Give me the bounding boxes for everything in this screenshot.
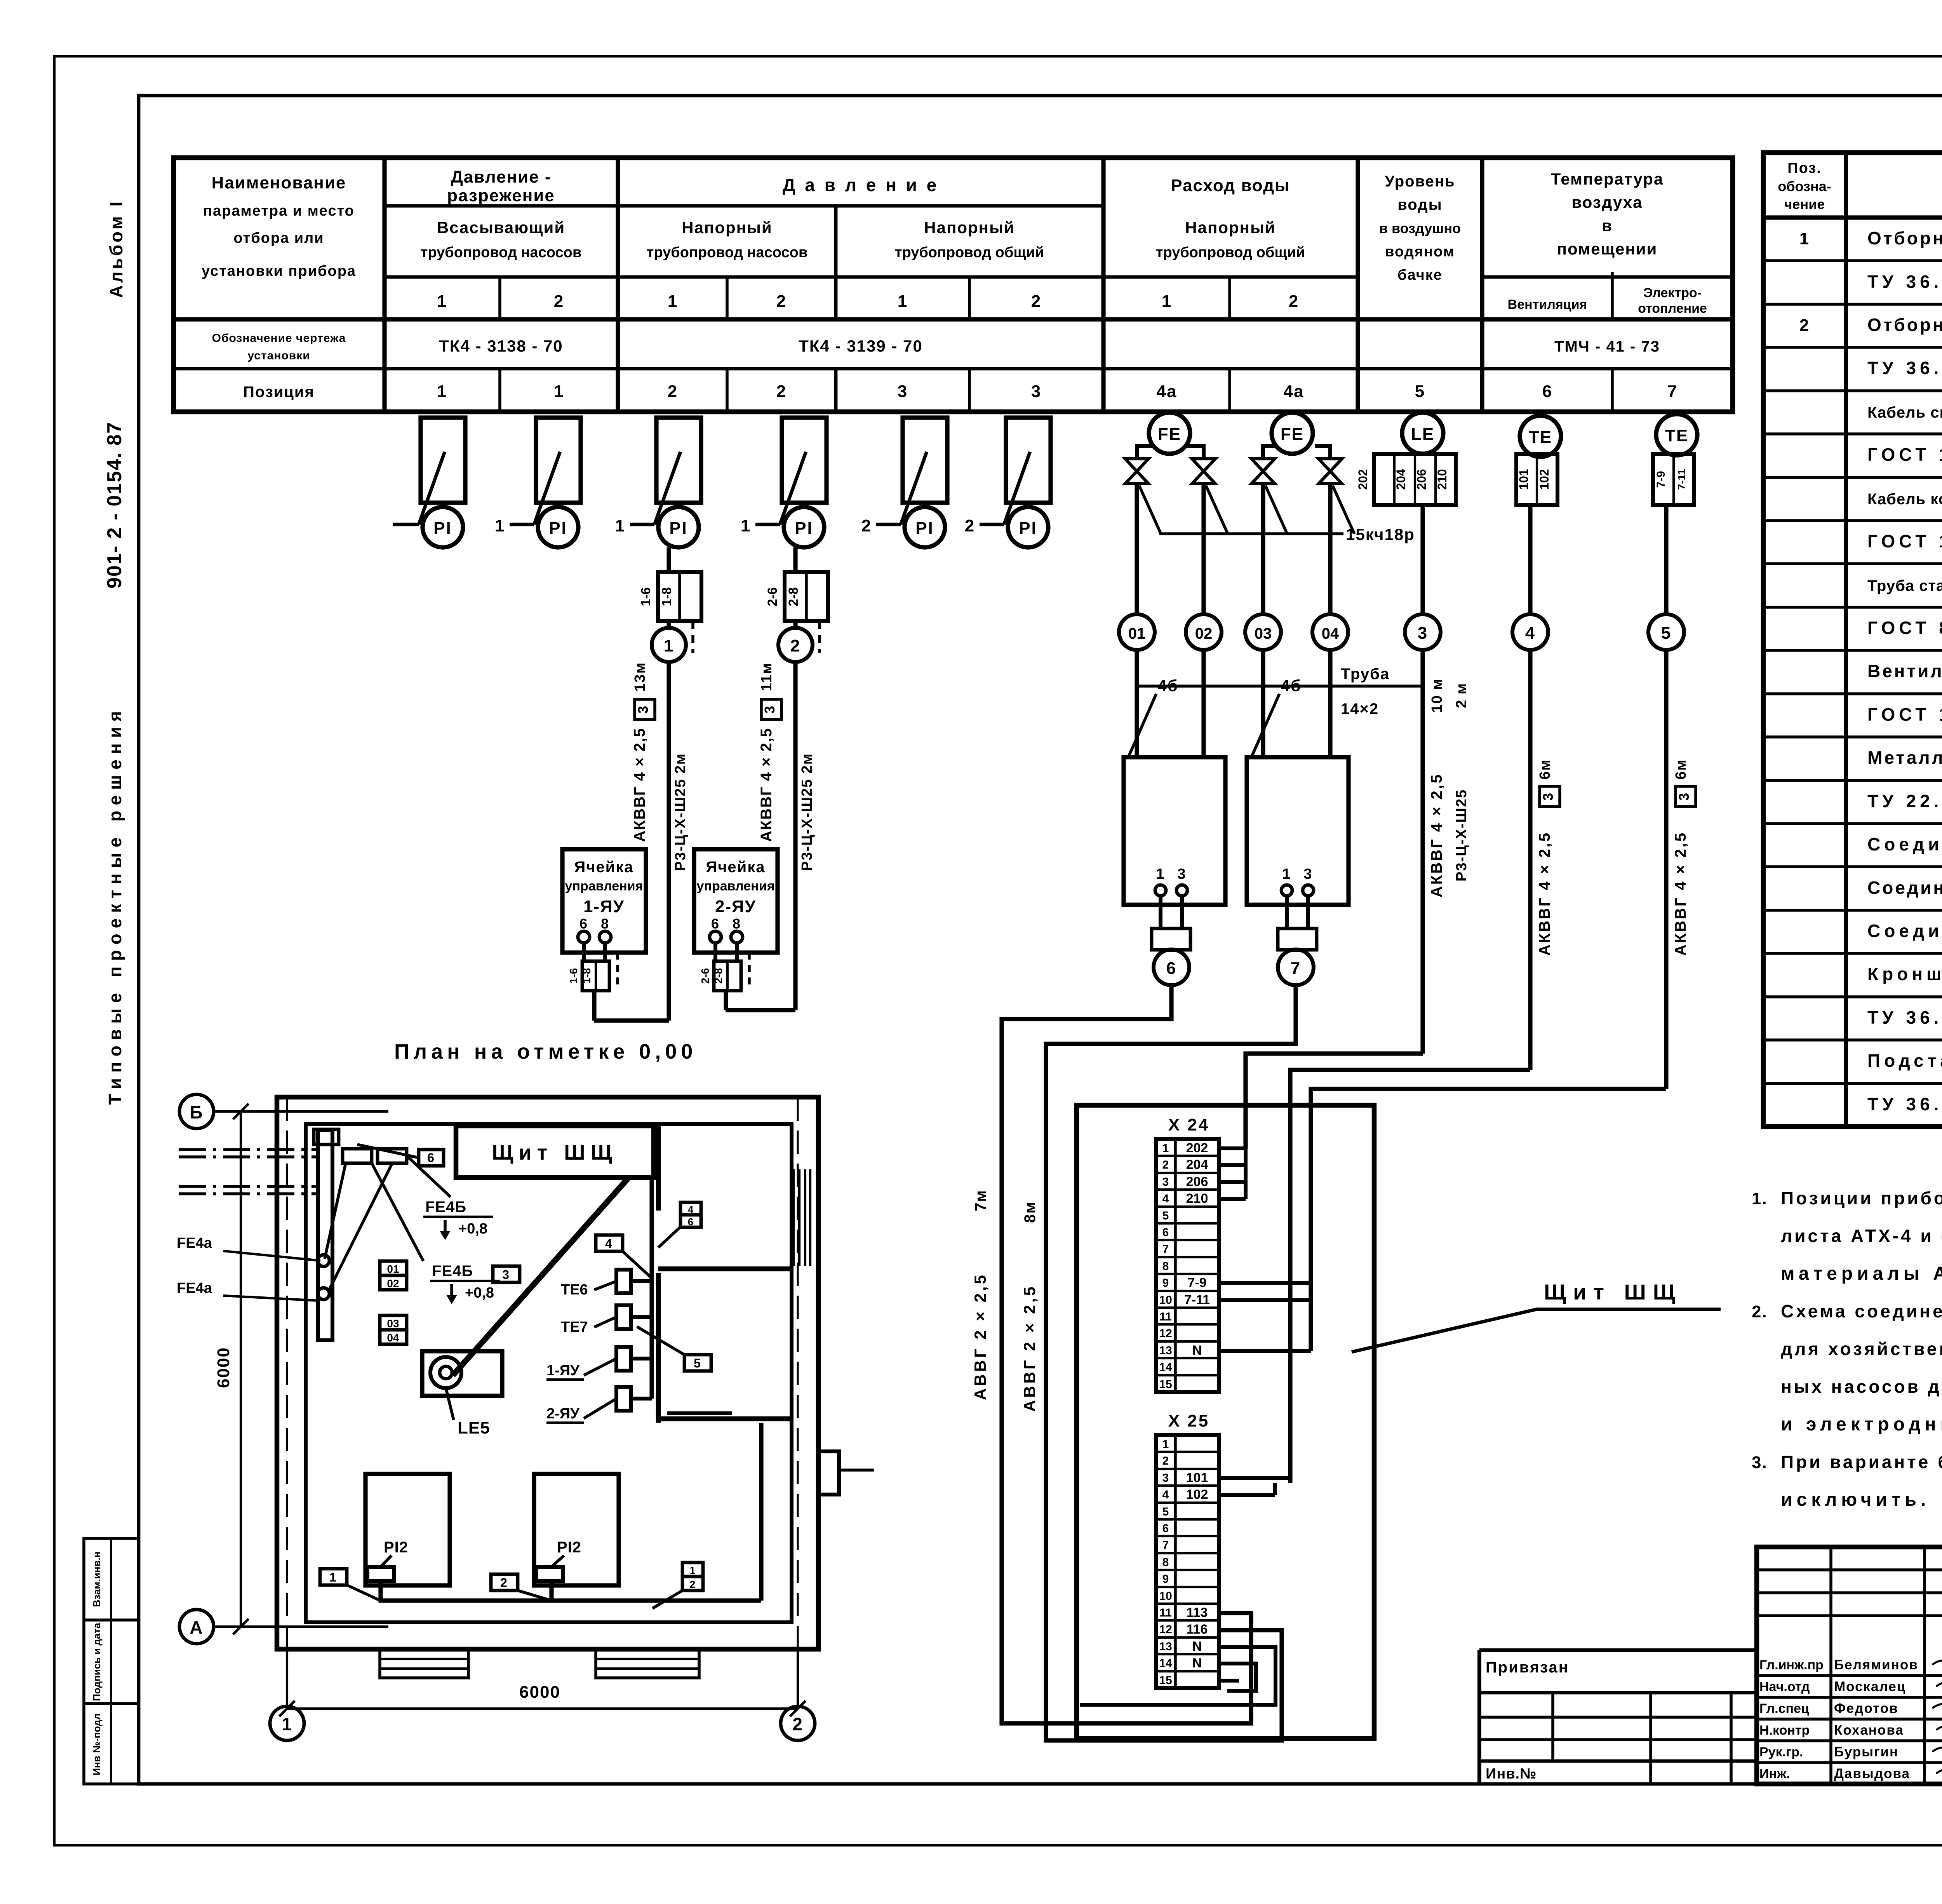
svg-text:6м: 6м xyxy=(1673,759,1689,779)
svg-text:6м: 6м xyxy=(1537,759,1553,779)
svg-text:АВВГ 2 × 2,5: АВВГ 2 × 2,5 xyxy=(971,1273,989,1400)
control cell 1-YaU box xyxy=(562,849,646,953)
valve 15kch18r #4 xyxy=(1319,459,1342,484)
svg-text:1-6: 1-6 xyxy=(567,968,579,984)
svg-text:12: 12 xyxy=(1159,1327,1172,1340)
svg-text:12: 12 xyxy=(1159,1623,1172,1636)
svg-text:04: 04 xyxy=(387,1332,399,1344)
svg-text:N: N xyxy=(1192,1343,1202,1358)
svg-text:3: 3 xyxy=(762,705,778,714)
svg-text:Уровень: Уровень xyxy=(1385,173,1455,190)
junction circles 01 02 03 04 xyxy=(1119,614,1155,650)
takeoff device rectangle 4 xyxy=(782,418,827,503)
svg-text:1: 1 xyxy=(437,292,447,311)
svg-text:3: 3 xyxy=(1418,624,1428,643)
staff rows xyxy=(1757,1674,1942,1677)
svg-text:113: 113 xyxy=(1187,1605,1208,1620)
svg-text:10 м: 10 м xyxy=(1429,678,1445,713)
svg-text:ТУ 36. 1228 - 72: ТУ 36. 1228 - 72 xyxy=(1867,1007,1942,1028)
svg-text:1-8: 1-8 xyxy=(660,587,674,606)
svg-text:11м: 11м xyxy=(759,662,775,691)
svg-text:FE4а: FE4а xyxy=(177,1235,212,1251)
svg-text:Вентиляция: Вентиляция xyxy=(1508,297,1587,312)
svg-text:Щит ШЩ: Щит ШЩ xyxy=(492,1141,618,1164)
svg-text:8м: 8м xyxy=(1021,1201,1039,1223)
svg-text:помещении: помещении xyxy=(1557,240,1658,258)
X25 stubs rows3-4 to TE6 bus xyxy=(1220,1476,1290,1480)
svg-text:7: 7 xyxy=(1667,382,1677,401)
svg-text:Бурыгин: Бурыгин xyxy=(1834,1744,1898,1759)
svg-text:2: 2 xyxy=(776,382,787,401)
privyazan table xyxy=(1479,1648,1757,1652)
svg-text:10: 10 xyxy=(1159,1590,1172,1603)
svg-text:ТУ 36.1258 - 76: ТУ 36.1258 - 76 xyxy=(1867,358,1942,378)
svg-text:Расход воды: Расход воды xyxy=(1171,176,1290,195)
bottom dimension line xyxy=(287,1707,798,1710)
svg-text:2-6: 2-6 xyxy=(699,968,711,984)
svg-text:План на отметке 0,00: План на отметке 0,00 xyxy=(394,1040,697,1063)
bottom-left stamp boxes xyxy=(84,1538,139,1784)
svg-text:TE: TE xyxy=(1529,428,1552,447)
svg-text:1: 1 xyxy=(437,382,447,401)
svg-text:Р3-Ц-Х-Ш25: Р3-Ц-Х-Ш25 xyxy=(1453,789,1470,881)
junction circle 7 xyxy=(1294,949,1298,950)
svg-text:101: 101 xyxy=(1186,1470,1208,1485)
svg-text:1: 1 xyxy=(1156,866,1165,882)
parameter table xyxy=(174,158,1733,412)
svg-text:1: 1 xyxy=(664,636,674,655)
control cell 2-YaU box xyxy=(694,849,778,953)
terminal box under PI with labels 2-6 2-8 xyxy=(785,572,828,621)
protective tube 14x2 marker line xyxy=(1137,685,1423,688)
svg-text:Позиция: Позиция xyxy=(243,383,315,401)
svg-text:Электро-: Электро- xyxy=(1643,286,1702,300)
cable junction circle 1 xyxy=(652,628,686,662)
svg-text:Давыдова: Давыдова xyxy=(1834,1766,1910,1781)
LE conductor marker box 202/204/206/210 xyxy=(1374,454,1456,505)
svg-text:управления: управления xyxy=(697,879,775,894)
svg-text:1-8: 1-8 xyxy=(581,968,593,984)
svg-text:8: 8 xyxy=(733,916,741,932)
svg-text:2: 2 xyxy=(690,1578,695,1590)
svg-text:Напорный: Напорный xyxy=(1185,218,1276,237)
spare dashed conductor xyxy=(748,953,751,987)
plate 5 xyxy=(684,1355,711,1371)
svg-text:Схема соединений внешних пр: Схема соединений внешних проводок состав… xyxy=(1781,1301,1942,1321)
TE/YaU boxes column xyxy=(616,1270,631,1293)
wire elbow to control cell xyxy=(726,1008,795,1012)
building inner wall xyxy=(306,1124,792,1622)
svg-text:TE: TE xyxy=(1665,426,1688,445)
svg-text:Москалец: Москалец xyxy=(1834,1679,1906,1694)
svg-text:206: 206 xyxy=(1415,469,1429,490)
svg-text:3: 3 xyxy=(1031,382,1041,401)
valve leader tick xyxy=(1206,486,1228,534)
panel ShchSh on plan xyxy=(456,1126,654,1178)
svg-text:4: 4 xyxy=(1525,624,1535,643)
svg-text:Вентиль 15 кч 18р Ду 15: Вентиль 15 кч 18р Ду 15 xyxy=(1867,661,1942,681)
svg-text:Кронштейн ДП: Кронштейн ДП xyxy=(1867,964,1942,984)
plate 1 xyxy=(320,1569,347,1585)
svg-text:ТЕ6: ТЕ6 xyxy=(561,1282,588,1298)
svg-text:PI: PI xyxy=(433,519,452,538)
svg-text:1: 1 xyxy=(495,516,505,535)
svg-text:2-8: 2-8 xyxy=(712,968,724,984)
svg-text:202: 202 xyxy=(1356,469,1370,490)
leader line PI6 xyxy=(1004,452,1030,524)
right wall door block xyxy=(818,1451,839,1495)
svg-text:ТУ 36.1258 - 76: ТУ 36.1258 - 76 xyxy=(1867,272,1942,292)
LE wire down xyxy=(1420,505,1425,614)
svg-text:13м: 13м xyxy=(632,662,648,692)
svg-text:11: 11 xyxy=(1159,1606,1172,1619)
plate 03/04 xyxy=(380,1315,407,1330)
svg-text:Типовые проектные решения: Типовые проектные решения xyxy=(105,706,125,1105)
leader line PI3 xyxy=(654,452,680,524)
svg-text:8: 8 xyxy=(601,916,609,932)
svg-text:01: 01 xyxy=(1128,625,1146,642)
svg-text:ГОСТ 18161 - 72: ГОСТ 18161 - 72 xyxy=(1867,704,1942,725)
svg-text:1-ЯУ: 1-ЯУ xyxy=(583,897,625,916)
LE5 tank with float xyxy=(422,1351,502,1396)
diff manometer rectangle 4b xyxy=(1247,757,1349,905)
svg-text:7: 7 xyxy=(1162,1243,1169,1256)
svg-text:PI: PI xyxy=(915,519,934,538)
FE4a orifice circles xyxy=(318,1255,329,1266)
junction circle 4 xyxy=(1512,614,1548,650)
grid line 1 xyxy=(286,1649,288,1706)
grid circle 2 xyxy=(781,1706,815,1740)
panel ShchSh box xyxy=(1077,1105,1374,1739)
TE7 wire elbow into panel xyxy=(1311,1089,1666,1351)
wires valves to junction circles 01-04 xyxy=(1135,484,1139,614)
svg-text:отопление: отопление xyxy=(1638,301,1707,316)
svg-text:Соединитель СШП-14: Соединитель СШП-14 xyxy=(1867,834,1942,854)
svg-text:5: 5 xyxy=(1162,1209,1169,1222)
svg-text:в воздушно: в воздушно xyxy=(1379,220,1461,236)
title block main box xyxy=(1757,1547,1942,1784)
svg-text:FE: FE xyxy=(1158,425,1181,444)
svg-text:трубопровод насосов: трубопровод насосов xyxy=(421,244,581,261)
connector box SShP-14 xyxy=(1152,928,1190,950)
svg-text:204: 204 xyxy=(1394,469,1408,490)
svg-text:6: 6 xyxy=(1162,1522,1169,1535)
svg-text:5: 5 xyxy=(1415,382,1425,401)
svg-text:5: 5 xyxy=(694,1356,701,1370)
svg-text:Взам.инв.н: Взам.инв.н xyxy=(91,1552,103,1607)
grid circle B xyxy=(179,1094,214,1129)
leader fan lines xyxy=(325,1163,346,1259)
TE6 wire elbow into panel xyxy=(1290,1070,1530,1483)
svg-text:Д а в л е н и е: Д а в л е н и е xyxy=(783,175,939,195)
leader line PI5 xyxy=(901,452,927,524)
svg-text:ТУ 22. 3988 - 77: ТУ 22. 3988 - 77 xyxy=(1867,791,1942,811)
svg-text:3: 3 xyxy=(1162,1472,1169,1484)
svg-text:FE4а: FE4а xyxy=(177,1280,212,1296)
svg-text:Альбом I: Альбом I xyxy=(106,199,126,298)
svg-text:2: 2 xyxy=(1289,292,1299,311)
svg-text:3.: 3. xyxy=(1752,1453,1768,1472)
svg-text:АКВВГ 4 × 2,5: АКВВГ 4 × 2,5 xyxy=(1536,831,1553,956)
svg-text:6: 6 xyxy=(1162,1226,1169,1239)
grid circle 1 xyxy=(270,1706,304,1740)
svg-text:7-11: 7-11 xyxy=(1184,1293,1210,1307)
svg-text:1: 1 xyxy=(1799,229,1810,248)
svg-text:N: N xyxy=(1192,1639,1202,1654)
svg-text:3: 3 xyxy=(1540,792,1556,801)
svg-text:ТУ 36. 1227 - 72: ТУ 36. 1227 - 72 xyxy=(1867,1094,1942,1114)
interior wall top right xyxy=(656,1126,661,1211)
svg-text:2: 2 xyxy=(965,516,975,535)
svg-text:Привязан: Привязан xyxy=(1486,1659,1569,1676)
leader line PI1 xyxy=(419,452,445,524)
svg-text:разрежение: разрежение xyxy=(447,186,555,205)
svg-text:02: 02 xyxy=(1195,625,1213,642)
svg-text:1: 1 xyxy=(1162,1438,1169,1451)
svg-text:в: в xyxy=(1602,216,1613,235)
svg-text:АКВВГ 4 × 2,5: АКВВГ 4 × 2,5 xyxy=(758,728,775,842)
svg-text:трубопровод общий: трубопровод общий xyxy=(1156,244,1305,261)
svg-text:ГОСТ 8734 - 75: ГОСТ 8734 - 75 xyxy=(1867,618,1942,638)
svg-text:Н.контр: Н.контр xyxy=(1759,1723,1810,1738)
entry pipelines dash-dot xyxy=(179,1148,316,1151)
svg-text:Обозначение чертежа: Обозначение чертежа xyxy=(212,332,346,345)
pump PI2 unit 1 xyxy=(365,1474,450,1585)
svg-text:Гл.спец: Гл.спец xyxy=(1759,1701,1809,1716)
svg-text:116: 116 xyxy=(1187,1622,1208,1637)
svg-text:Коханова: Коханова xyxy=(1834,1723,1904,1738)
wires to connector xyxy=(1159,896,1162,928)
svg-text:102: 102 xyxy=(1186,1487,1208,1502)
svg-text:2-ЯУ: 2-ЯУ xyxy=(715,897,756,916)
svg-text:206: 206 xyxy=(1186,1174,1208,1189)
instrument PI2 circle xyxy=(538,507,578,547)
svg-text:Труба: Труба xyxy=(1341,665,1390,683)
conductor marker box 1-6/1-8 xyxy=(582,961,609,991)
svg-text:2: 2 xyxy=(1162,1455,1169,1467)
svg-text:901- 2 - 0154. 87: 901- 2 - 0154. 87 xyxy=(103,422,126,589)
junction circle 5 xyxy=(1648,614,1684,650)
valve leader tick xyxy=(1139,486,1161,534)
instrument PI6 circle xyxy=(1008,507,1048,547)
wire from circle 6 to panel (AVVG 7m) xyxy=(1002,985,1251,1723)
svg-text:9: 9 xyxy=(1162,1277,1169,1289)
svg-text:6: 6 xyxy=(688,1216,693,1228)
svg-text:PI: PI xyxy=(1019,519,1037,538)
svg-text:Давление -: Давление - xyxy=(451,167,551,186)
svg-text:Металлорукав Р3-Ц-Х-Ш25: Металлорукав Р3-Ц-Х-Ш25 xyxy=(1867,747,1942,768)
wires from terminals into marker box xyxy=(582,943,586,961)
top-left instrument plates xyxy=(314,1129,339,1144)
svg-text:1: 1 xyxy=(690,1564,695,1576)
svg-text:FE4Б: FE4Б xyxy=(432,1263,473,1280)
svg-text:2: 2 xyxy=(1799,316,1810,335)
svg-text:1: 1 xyxy=(1162,1142,1169,1155)
svg-text:7-9: 7-9 xyxy=(1187,1275,1206,1290)
svg-text:2: 2 xyxy=(792,1714,803,1734)
svg-text:1: 1 xyxy=(1162,292,1172,311)
svg-text:PI2: PI2 xyxy=(557,1539,581,1556)
wire down from marker box xyxy=(724,991,728,1010)
wire elbow to control cell xyxy=(594,1018,669,1023)
svg-text:2: 2 xyxy=(500,1576,508,1590)
standpipe element xyxy=(318,1130,332,1340)
svg-text:Рук.гр.: Рук.гр. xyxy=(1759,1745,1803,1759)
svg-text:2: 2 xyxy=(668,382,678,401)
svg-text:2: 2 xyxy=(776,292,787,311)
svg-text:материалы АТХ. С02 альбом I: материалы АТХ. С02 альбом IV . xyxy=(1781,1263,1942,1284)
svg-text:13: 13 xyxy=(1159,1640,1172,1653)
plate 3 xyxy=(493,1266,520,1282)
svg-text:3: 3 xyxy=(1162,1176,1169,1188)
wire down from junction 1 xyxy=(666,662,671,1021)
svg-text:PI: PI xyxy=(795,519,813,538)
grid line B xyxy=(214,1110,388,1113)
svg-text:трубопровод насосов: трубопровод насосов xyxy=(647,244,807,261)
svg-text:воздуха: воздуха xyxy=(1571,193,1643,211)
svg-text:Б: Б xyxy=(190,1102,203,1122)
svg-text:2 м: 2 м xyxy=(1453,683,1470,708)
temperature element TE6 xyxy=(1520,416,1561,457)
svg-text:Наименование: Наименование xyxy=(212,173,346,192)
svg-text:210: 210 xyxy=(1435,469,1449,490)
specification table xyxy=(1763,153,1942,1127)
svg-text:АКВВГ 4 × 2,5: АКВВГ 4 × 2,5 xyxy=(631,728,648,842)
takeoff device rectangle 2 xyxy=(536,418,581,503)
svg-text:2.: 2. xyxy=(1752,1302,1768,1321)
svg-text:Р3-Ц-Х-Ш25 2м: Р3-Ц-Х-Ш25 2м xyxy=(799,753,815,871)
svg-text:PI: PI xyxy=(669,519,688,538)
svg-text:Беляминов: Беляминов xyxy=(1834,1657,1918,1672)
interior room walls xyxy=(658,1266,792,1272)
plate 4/6 stacked xyxy=(680,1202,701,1215)
wires from terminals into marker box xyxy=(713,943,717,961)
svg-text:Соединение СШВ-14-К ½ʺ: Соединение СШВ-14-К ½ʺ xyxy=(1867,878,1942,898)
svg-text:4а: 4а xyxy=(1157,382,1177,401)
svg-text:ных насосов дифманометры с: ных насосов дифманометры с диафрагмами п… xyxy=(1781,1376,1942,1397)
svg-text:трубопровод общий: трубопровод общий xyxy=(895,244,1044,261)
svg-text:Всасывающий: Всасывающий xyxy=(437,218,565,237)
svg-text:3: 3 xyxy=(1303,866,1312,882)
connector box SShP-14 xyxy=(1278,928,1317,950)
svg-text:6: 6 xyxy=(427,1151,435,1165)
svg-text:Отборное устройство 16-225У: Отборное устройство 16-225У xyxy=(1867,315,1942,335)
plate 01/02 xyxy=(380,1261,407,1275)
svg-text:1: 1 xyxy=(668,292,678,311)
plate 4 xyxy=(596,1235,623,1251)
svg-text:PI2: PI2 xyxy=(384,1539,408,1556)
svg-text:4: 4 xyxy=(605,1237,613,1251)
svg-text:1: 1 xyxy=(615,516,625,535)
svg-text:1: 1 xyxy=(329,1570,337,1584)
svg-text:Поз.: Поз. xyxy=(1787,160,1821,176)
svg-text:ТК4 - 3139 - 70: ТК4 - 3139 - 70 xyxy=(799,337,922,355)
svg-text:3: 3 xyxy=(898,382,908,401)
svg-text:2-8: 2-8 xyxy=(786,587,801,606)
svg-text:PI: PI xyxy=(549,519,567,538)
svg-text:Гл.инж.пр: Гл.инж.пр xyxy=(1759,1658,1824,1672)
svg-text:для хозяйственно- питьевых н: для хозяйственно- питьевых насосов, для … xyxy=(1781,1339,1942,1359)
svg-text:3: 3 xyxy=(1676,792,1692,801)
svg-text:+0,8: +0,8 xyxy=(458,1221,487,1237)
svg-text:чение: чение xyxy=(1784,196,1825,212)
TE7 wire down xyxy=(1664,505,1668,614)
takeoff device rectangle 3 xyxy=(656,418,701,503)
svg-text:02: 02 xyxy=(387,1277,399,1289)
TE6 conductor marker box 101/102 xyxy=(1516,454,1557,505)
vertical dimension line xyxy=(240,1111,242,1627)
TE6 wire down xyxy=(1528,505,1532,614)
svg-text:1: 1 xyxy=(282,1714,292,1734)
svg-text:При варианте без электроото: При варианте без электроотопления датчик… xyxy=(1781,1452,1942,1472)
svg-text:101: 101 xyxy=(1517,469,1531,490)
svg-text:210: 210 xyxy=(1186,1191,1208,1206)
svg-text:параметра и место: параметра и место xyxy=(203,203,355,219)
svg-text:и электродные датчики поз.: и электродные датчики поз. 5 исключить. xyxy=(1781,1414,1942,1435)
cell terminals xyxy=(578,931,590,943)
wires to connector xyxy=(1285,896,1289,928)
svg-text:водяном: водяном xyxy=(1385,244,1455,260)
svg-text:13: 13 xyxy=(1159,1344,1172,1357)
instrument PI5 circle xyxy=(905,507,945,547)
takeoff device rectangle 6 xyxy=(1006,418,1051,503)
svg-text:АВВГ 2 × 2,5: АВВГ 2 × 2,5 xyxy=(1020,1284,1039,1412)
svg-text:9: 9 xyxy=(1162,1573,1169,1585)
svg-text:установки прибора: установки прибора xyxy=(202,263,356,279)
svg-text:6: 6 xyxy=(579,916,588,932)
svg-text:Соединение СШН-14: Соединение СШН-14 xyxy=(1867,921,1942,941)
title block mini grid xyxy=(1757,1568,1942,1571)
grid line 2 xyxy=(797,1649,799,1706)
X24 stubs rows1-4 to LE bus xyxy=(1219,1146,1246,1150)
svg-text:2: 2 xyxy=(1031,292,1041,311)
svg-text:3: 3 xyxy=(1177,866,1186,882)
valve 15kch18r #2 xyxy=(1192,459,1215,484)
svg-text:1: 1 xyxy=(741,516,751,535)
svg-text:1: 1 xyxy=(554,382,564,401)
svg-text:15: 15 xyxy=(1159,1378,1172,1391)
svg-text:ГОСТ 16442 - 80: ГОСТ 16442 - 80 xyxy=(1867,444,1942,465)
svg-text:Отборное устройство 46-225П: Отборное устройство 46-225П xyxy=(1867,228,1942,248)
svg-text:11: 11 xyxy=(1159,1310,1172,1323)
exterior steps bottom xyxy=(380,1649,468,1678)
svg-text:Кабель силовой АВВГ 2×2,5 мм: Кабель силовой АВВГ 2×2,5 мм² 660В xyxy=(1867,404,1942,421)
svg-text:10: 10 xyxy=(1159,1294,1172,1306)
cable drop from panel to boxes xyxy=(649,1178,654,1399)
svg-text:6: 6 xyxy=(1542,382,1552,401)
svg-text:2: 2 xyxy=(554,292,564,311)
grid circle A xyxy=(179,1610,214,1644)
LE wire elbow into panel xyxy=(1246,1054,1423,1149)
flow element FE1 xyxy=(1149,413,1190,454)
takeoff device rectangle 1 xyxy=(421,418,465,503)
svg-text:3: 3 xyxy=(635,705,651,714)
X24 stubs rows9-10 to TE7 bus xyxy=(1219,1281,1311,1285)
svg-text:2: 2 xyxy=(1162,1158,1169,1171)
svg-text:14: 14 xyxy=(1159,1361,1172,1374)
pump PI2 unit 2 xyxy=(534,1474,619,1585)
valve leader tick xyxy=(1333,486,1354,534)
svg-text:Нач.отд: Нач.отд xyxy=(1759,1679,1810,1694)
building outer wall xyxy=(277,1097,818,1649)
svg-text:ТМЧ - 41 - 73: ТМЧ - 41 - 73 xyxy=(1554,338,1660,355)
svg-text:2-6: 2-6 xyxy=(765,587,780,606)
svg-text:А: А xyxy=(190,1617,203,1637)
spare conductor dashed xyxy=(691,621,694,653)
svg-text:исключить.: исключить. xyxy=(1781,1489,1930,1510)
spare conductor dashed xyxy=(818,621,821,653)
valve leader tick xyxy=(1265,486,1287,534)
